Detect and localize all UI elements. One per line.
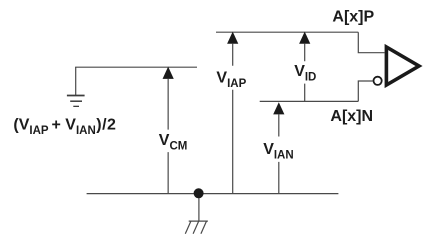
svg-text:A[x]P: A[x]P (332, 8, 374, 25)
svg-text:A[x]N: A[x]N (330, 108, 373, 125)
